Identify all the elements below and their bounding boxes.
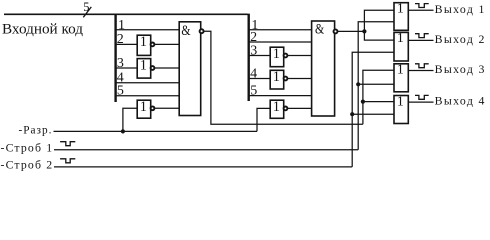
wire: enable drop to block1 bottom inverter (123, 108, 137, 131)
wire: junction down to latch2 in1 (364, 31, 394, 40)
wire: block1 line 3 inverter out (155, 67, 179, 69)
svg-text:5: 5 (250, 84, 257, 99)
wire: latch3 output (408, 70, 433, 72)
svg-text:1: 1 (273, 99, 280, 115)
wire: block2 line 5 (249, 95, 312, 97)
wire: latch2 output (408, 39, 433, 41)
inverter (1) on block2 line 4 (270, 70, 284, 89)
inverter (1) block1 enable (137, 100, 151, 118)
wire: block1 line 3 into inverter (116, 67, 138, 69)
inverter (1) on block1 line 2 (137, 35, 151, 55)
wire: enable drop to block2 bottom inverter (257, 108, 270, 131)
wire: strobe2 branch to latch4 in2 (352, 113, 394, 115)
wire: U1 branch to latch4 in1 (363, 101, 394, 103)
U1 output bubble (200, 29, 204, 33)
wire: block2 line 3 inverter out (288, 55, 312, 57)
svg-text:1: 1 (397, 30, 404, 45)
wire: U2 output to junction (338, 30, 365, 32)
svg-text:1: 1 (273, 46, 280, 62)
wire: latch1 output (408, 9, 433, 11)
svg-text:Выход 2: Выход 2 (435, 32, 485, 46)
U2 output bubble (334, 29, 338, 33)
pulse symbol output 1 (415, 4, 429, 8)
inverter (1) on block1 line 3 (137, 59, 151, 79)
wire: U1 output down and across (204, 31, 363, 124)
wire: strobe1 line (54, 149, 358, 151)
svg-text:1: 1 (397, 62, 404, 77)
inverter (1) on block2 line 3 (270, 47, 284, 66)
wire: block2 line 4 into inverter (249, 78, 271, 80)
pulse symbol strobe2 (60, 159, 75, 163)
wire: strobe2 riser (352, 52, 394, 167)
wire: block1 line 5 (116, 95, 180, 97)
svg-text:1: 1 (397, 93, 404, 108)
wire: block2 input bus vertical (247, 14, 249, 101)
svg-text:1: 1 (140, 34, 147, 50)
wire: block2 line 3 into inverter (249, 55, 271, 57)
wire: block2 enable inverter out (288, 107, 312, 109)
svg-text:&: & (181, 23, 191, 39)
svg-text:-Строб 1: -Строб 1 (1, 141, 53, 155)
node: enable junction to block1 (121, 129, 125, 133)
node: strobe2 to latch4 junction (350, 112, 354, 116)
svg-text:1: 1 (140, 99, 147, 115)
svg-text:4: 4 (250, 66, 257, 81)
svg-text:Входной код: Входной код (2, 21, 83, 38)
wire: strobe2 line (54, 166, 352, 168)
wire: block2 line 1 (249, 29, 312, 31)
node: U1 riser to latch4 junction (361, 100, 365, 104)
svg-text:1: 1 (397, 1, 404, 16)
wire: block1 enable inverter out (155, 107, 179, 109)
latch 3 (1) (394, 64, 408, 92)
svg-text:-Разр.: -Разр. (19, 124, 52, 136)
wire: block1 input bus vertical (114, 14, 116, 102)
latch 1 (1) (394, 3, 408, 31)
node: U2 output junction (362, 29, 366, 33)
svg-text:3: 3 (250, 43, 257, 58)
svg-text:Выход 3: Выход 3 (435, 62, 485, 76)
nand gate U1 (&) (179, 22, 201, 116)
svg-text:&: & (315, 22, 325, 38)
pulse symbol output 2 (415, 34, 429, 38)
wire: strobe1 riser (358, 22, 394, 150)
svg-text:Выход 4: Выход 4 (435, 94, 485, 108)
wire: block1 line 2 inverter out (155, 43, 179, 45)
svg-text:-Строб 2: -Строб 2 (1, 157, 53, 171)
svg-text:Выход 1: Выход 1 (435, 2, 485, 16)
wire: latch4 output (408, 101, 433, 103)
svg-text:1: 1 (140, 57, 147, 73)
wire: block2 line 4 inverter out (288, 78, 312, 80)
svg-text:1: 1 (118, 18, 125, 33)
node: strobe1 to latch3 junction (356, 82, 360, 86)
pulse symbol output 4 (415, 95, 429, 99)
latch 4 (1) (394, 96, 408, 124)
svg-text:5: 5 (83, 0, 89, 14)
wire: block1 line 1 (116, 29, 180, 31)
nand gate U2 (&) (312, 21, 335, 116)
wire: junction up to latch1 in1 (364, 10, 394, 31)
wire: enable line (54, 130, 258, 132)
bus width slash (83, 7, 91, 17)
wire: U1 riser to latch3 in1 (363, 70, 394, 124)
pulse symbol output 3 (415, 64, 429, 68)
wire: strobe1 branch to latch3 in2 (358, 83, 394, 85)
svg-text:1: 1 (273, 69, 280, 85)
wire: block1 line 4 (116, 82, 180, 84)
wire: top input bus horizontal (4, 13, 248, 15)
latch 2 (1) (394, 32, 408, 61)
pulse symbol strobe1 (60, 142, 75, 146)
inverter (1) block2 enable (270, 100, 284, 118)
svg-text:5: 5 (117, 84, 124, 99)
wire: block2 line 2 (249, 41, 312, 43)
wire: block1 line 2 into inverter (116, 43, 138, 45)
